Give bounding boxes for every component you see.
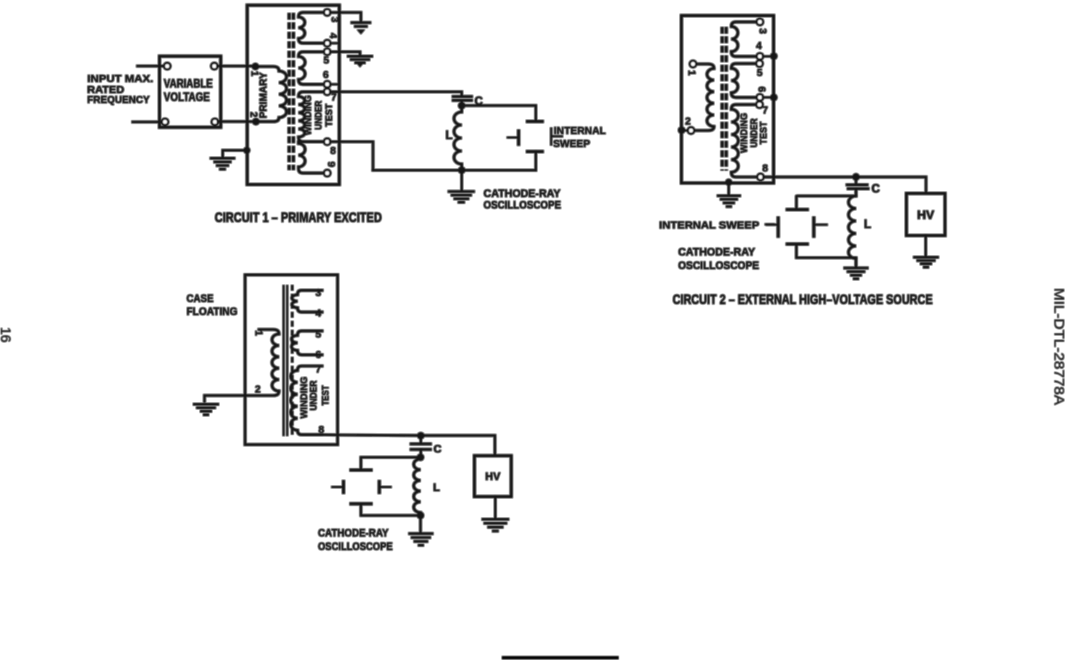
scope right plate lead c2 bbox=[814, 224, 827, 226]
terminal VV top-left bbox=[164, 63, 170, 69]
svg-text:C: C bbox=[434, 444, 442, 456]
capacitor C c1 bbox=[452, 97, 473, 101]
wire J to C c3 bbox=[420, 436, 422, 443]
node pin6 bus junction c2 bbox=[770, 94, 777, 101]
terminal 5 of T2 bbox=[756, 61, 762, 67]
primary winding of T2 bbox=[694, 64, 714, 131]
scope left plate c2 bbox=[777, 217, 780, 238]
terminal 5 of T1 bbox=[324, 49, 330, 55]
scope top plate c1 bbox=[526, 120, 544, 123]
wire VV to pin2 bbox=[218, 120, 256, 122]
wire HV to ground c3 bbox=[494, 497, 496, 519]
svg-text:5: 5 bbox=[324, 56, 330, 67]
svg-text:1: 1 bbox=[685, 70, 696, 76]
node J C c3 bbox=[417, 432, 424, 439]
svg-text:5: 5 bbox=[757, 68, 763, 79]
terminal 7 of T1 bbox=[324, 89, 330, 95]
secondary winding 3-4 of T1 bbox=[299, 12, 325, 43]
wire input top bbox=[138, 65, 165, 67]
scope right plate lead c3 bbox=[379, 486, 390, 488]
sweep lead tick c2 bbox=[766, 223, 774, 225]
svg-text:TEST: TEST bbox=[759, 121, 770, 144]
ground case c2 bbox=[717, 196, 741, 207]
svg-text:6: 6 bbox=[756, 87, 767, 93]
wire HV to ground c2 bbox=[925, 236, 927, 257]
primary winding of T1 bbox=[255, 67, 286, 122]
ground L c1 bbox=[448, 192, 475, 203]
svg-text:3: 3 bbox=[329, 17, 340, 23]
terminal 3 of T1 bbox=[324, 9, 330, 15]
secondary winding 3-4 of T2 bbox=[731, 22, 757, 57]
wire pin8 to rail bbox=[330, 142, 373, 171]
svg-text:CATHODE-RAY: CATHODE-RAY bbox=[484, 188, 562, 200]
terminal 6 of T2 bbox=[757, 94, 763, 100]
scope left plate lead c2 bbox=[767, 224, 778, 226]
core of T1 bbox=[289, 13, 293, 170]
node pin2 of T1 bbox=[252, 118, 259, 125]
svg-text:CATHODE-RAY: CATHODE-RAY bbox=[318, 528, 389, 540]
scope right plate c3 bbox=[378, 480, 381, 494]
terminal 3 of T2 bbox=[757, 19, 763, 25]
node J2 c1 bbox=[458, 167, 465, 174]
winding under test 7-8 of T3 bbox=[291, 366, 322, 435]
ground pin3 c1 bbox=[351, 23, 372, 27]
ground pin5 c1 bbox=[347, 56, 373, 62]
ground HV c2 bbox=[913, 257, 939, 267]
wire bottom plate to rail c1 bbox=[535, 152, 537, 171]
stub pin2 to case c2 bbox=[681, 130, 688, 132]
svg-text:VARIABLE: VARIABLE bbox=[164, 78, 213, 90]
winding under test 7-8 of T2 bbox=[731, 105, 757, 177]
terminal 6 of T1 bbox=[324, 81, 330, 87]
svg-text:2: 2 bbox=[685, 116, 691, 127]
wire J to C c2 bbox=[855, 177, 857, 183]
svg-text:2: 2 bbox=[255, 384, 261, 395]
terminal VV bottom-right bbox=[212, 119, 218, 125]
svg-text:5: 5 bbox=[316, 329, 322, 340]
svg-text:WINDING: WINDING bbox=[303, 95, 314, 135]
svg-text:L: L bbox=[433, 482, 440, 494]
svg-text:PRIMARY: PRIMARY bbox=[257, 72, 269, 118]
stub pin4 to bus c2 bbox=[763, 55, 774, 57]
wire pin3 to ground bbox=[330, 12, 361, 21]
svg-text:8: 8 bbox=[330, 146, 336, 157]
HV source box c2 bbox=[906, 193, 945, 235]
scope bottom rail c2 bbox=[796, 244, 856, 258]
svg-text:6: 6 bbox=[323, 70, 329, 81]
scope mid plate c1 bbox=[517, 130, 520, 146]
wire J1 to top plate c1 bbox=[462, 106, 536, 121]
wire case to ground c1 bbox=[223, 150, 247, 157]
terminal VV top-right bbox=[211, 63, 217, 69]
core of T3 dashed bbox=[291, 285, 293, 436]
transformer T1 case box bbox=[247, 5, 339, 184]
wire J3 to ground c3 bbox=[419, 515, 421, 532]
terminal 1 of T2 bbox=[690, 61, 696, 67]
scope top plate c2 bbox=[786, 208, 809, 211]
scope bottom rail c3 bbox=[361, 504, 421, 516]
HV source box c3 bbox=[474, 456, 511, 497]
scope bottom plate c3 bbox=[350, 502, 373, 505]
ground pin5 triangle bbox=[357, 63, 364, 67]
node case ground junction T1 bbox=[243, 147, 250, 154]
svg-text:OSCILLOSCOPE: OSCILLOSCOPE bbox=[484, 200, 562, 212]
svg-text:HV: HV bbox=[917, 210, 934, 222]
ground HV c3 bbox=[482, 519, 510, 531]
wire C to J2 c3 bbox=[420, 449, 422, 457]
transformer T3 case box bbox=[245, 275, 338, 445]
secondary winding 5-6 of T1 bbox=[299, 52, 325, 85]
svg-text:CIRCUIT 2 – EXTERNAL HIGH–VOLT: CIRCUIT 2 – EXTERNAL HIGH–VOLTAGE SOURCE bbox=[673, 292, 933, 307]
terminal 8 of T1 bbox=[324, 139, 330, 145]
svg-text:CIRCUIT 1 – PRIMARY EXCITED: CIRCUIT 1 – PRIMARY EXCITED bbox=[215, 210, 382, 225]
svg-text:4: 4 bbox=[756, 41, 762, 52]
svg-text:FREQUENCY: FREQUENCY bbox=[87, 94, 150, 106]
svg-text:MIL-DTL-28778A: MIL-DTL-28778A bbox=[1052, 288, 1068, 406]
terminal VV bottom-left bbox=[162, 119, 168, 125]
svg-text:CATHODE-RAY: CATHODE-RAY bbox=[678, 246, 756, 258]
svg-text:INTERNAL: INTERNAL bbox=[554, 125, 607, 137]
scope top rail c3 bbox=[361, 457, 421, 469]
node case ground junction c2 bbox=[725, 179, 732, 186]
terminal 4 of T2 bbox=[757, 53, 763, 59]
svg-text:4: 4 bbox=[316, 309, 322, 320]
terminal 4 of T1 bbox=[324, 40, 330, 46]
winding under test 7-8 of T1 bbox=[299, 92, 325, 142]
svg-text:8: 8 bbox=[762, 164, 768, 175]
wire pin8 to HV c2 bbox=[764, 177, 927, 192]
core of T2 bbox=[722, 27, 726, 171]
svg-text:SWEEP: SWEEP bbox=[553, 138, 590, 150]
terminal 8 of T2 bbox=[757, 174, 763, 180]
node pin4 bus junction c2 bbox=[770, 53, 777, 60]
svg-text:HV: HV bbox=[485, 471, 501, 483]
terminal 9 of T1 bbox=[324, 170, 330, 176]
svg-text:16: 16 bbox=[0, 327, 14, 343]
scope left plate c3 bbox=[342, 480, 345, 494]
terminal 2 of T2 bbox=[688, 127, 694, 133]
svg-text:L: L bbox=[864, 219, 871, 231]
node J C c2 bbox=[852, 173, 859, 180]
ground pin3 triangle bbox=[357, 30, 365, 35]
scope left plate lead c3 bbox=[332, 486, 343, 488]
ground pin2 c3 bbox=[193, 404, 219, 415]
variable-voltage source box bbox=[160, 56, 221, 127]
wire input bottom bbox=[133, 121, 162, 123]
scope top plate c3 bbox=[350, 469, 373, 472]
scope bottom plate c2 bbox=[786, 243, 809, 246]
bottom rail c1 bbox=[373, 169, 536, 171]
node J3 c3 bbox=[417, 512, 424, 519]
terminal 7 of T2 bbox=[756, 102, 762, 108]
svg-text:UNDER: UNDER bbox=[308, 380, 319, 410]
svg-text:9: 9 bbox=[325, 162, 336, 168]
svg-text:VOLTAGE: VOLTAGE bbox=[164, 92, 210, 104]
svg-text:1: 1 bbox=[253, 330, 264, 336]
svg-text:4: 4 bbox=[327, 33, 338, 39]
svg-text:3: 3 bbox=[757, 28, 768, 34]
bottom scan bar bbox=[502, 656, 619, 659]
svg-text:6: 6 bbox=[316, 350, 322, 361]
wire pin5 to ground bbox=[330, 52, 360, 55]
svg-text:7: 7 bbox=[331, 93, 337, 104]
wire case to ground c2 bbox=[728, 182, 730, 195]
wire C to node c1 bbox=[461, 100, 463, 105]
svg-text:L: L bbox=[445, 130, 452, 142]
wire pin2 to ground c3 bbox=[205, 396, 246, 402]
bottom winding 9 of T1 bbox=[299, 142, 325, 173]
wire J2 to ground c1 bbox=[461, 170, 463, 190]
svg-text:TEST: TEST bbox=[324, 104, 335, 127]
svg-text:C: C bbox=[871, 184, 879, 196]
capacitor C c3 bbox=[410, 444, 432, 450]
ground case c1 bbox=[210, 158, 235, 169]
svg-text:7: 7 bbox=[762, 106, 768, 117]
wire VV to pin1 bbox=[217, 65, 255, 67]
node J2 c3 bbox=[417, 454, 424, 461]
svg-text:OSCILLOSCOPE: OSCILLOSCOPE bbox=[318, 541, 393, 553]
wire pin8 to HV c3 bbox=[322, 435, 495, 455]
wire pin7 to C bbox=[330, 92, 462, 96]
scope bottom plate c1 bbox=[526, 150, 544, 153]
scope right plate c2 bbox=[812, 217, 815, 238]
svg-text:CASE: CASE bbox=[187, 293, 214, 305]
transformer T2 case box bbox=[681, 16, 773, 183]
secondary winding 5-6 of T2 bbox=[731, 64, 757, 98]
svg-text:INTERNAL SWEEP: INTERNAL SWEEP bbox=[659, 219, 759, 231]
svg-text:TEST: TEST bbox=[321, 385, 332, 405]
svg-text:7: 7 bbox=[316, 365, 322, 376]
stub pin6 to case bbox=[330, 83, 339, 85]
scope top rail c2 bbox=[796, 196, 856, 209]
scope mid plate lead c1 bbox=[508, 137, 519, 139]
secondary winding 3-4 of T3 bbox=[292, 290, 322, 312]
bracket internal sweep c1 bbox=[551, 129, 562, 145]
inductor L c3 bbox=[414, 457, 421, 515]
ground L c3 bbox=[408, 534, 433, 546]
primary winding of T3 bbox=[245, 330, 279, 396]
core of T3 solid bbox=[284, 285, 288, 436]
secondary winding 5-6 of T3 bbox=[291, 331, 322, 355]
inductor L c1 bbox=[454, 106, 462, 171]
node pin2 case junction c2 bbox=[678, 127, 685, 134]
ground L c2 bbox=[844, 268, 869, 279]
node J1 c1 bbox=[458, 102, 465, 109]
capacitor C c2 bbox=[846, 185, 870, 189]
node pin1 of T1 bbox=[252, 63, 259, 70]
svg-text:OSCILLOSCOPE: OSCILLOSCOPE bbox=[678, 260, 759, 272]
inductor L c2 bbox=[849, 189, 856, 267]
svg-text:FLOATING: FLOATING bbox=[187, 306, 238, 318]
stub pin6 to bus c2 bbox=[763, 96, 774, 98]
svg-text:3: 3 bbox=[316, 288, 322, 299]
stub pin4 to case bbox=[330, 42, 339, 44]
